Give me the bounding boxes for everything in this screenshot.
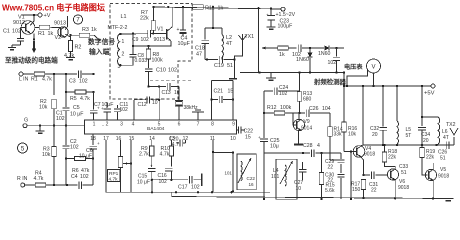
svg-text:9018: 9018 [398, 185, 409, 191]
transistor V9 9014 [293, 119, 304, 130]
resistor R3 10k [53, 126, 55, 147]
svg-text:C21: C21 [214, 89, 224, 95]
wire base V3 [154, 33, 167, 35]
diode 1N60 series [325, 45, 329, 50]
inductor L2 4T [221, 28, 223, 35]
svg-text:0.033: 0.033 [135, 58, 148, 64]
svg-text:C3: C3 [69, 79, 76, 85]
svg-text:102: 102 [279, 91, 288, 97]
svg-text:输入端: 输入端 [89, 47, 110, 56]
capacitor C31 22 [364, 174, 371, 176]
wire node to R3 [71, 34, 80, 36]
svg-text:C28: C28 [303, 143, 313, 149]
inductor L3 variable [241, 161, 242, 181]
svg-text:101: 101 [225, 171, 233, 176]
ground under C23 [267, 26, 276, 28]
svg-text:10k: 10k [348, 132, 357, 138]
capacitor C34 20 [421, 86, 423, 126]
wire detector rail to R16 [343, 73, 345, 87]
svg-text:1k: 1k [48, 31, 54, 37]
svg-text:射频检测器: 射频检测器 [313, 77, 347, 86]
terminal L IN [19, 72, 23, 76]
resistor R15 5.6k [319, 173, 323, 185]
resistor R4 4.7k [25, 184, 35, 186]
wire voltmeter leads [347, 70, 368, 87]
svg-text:RP1: RP1 [109, 171, 119, 177]
svg-text:9013: 9013 [54, 21, 66, 27]
svg-text:TX1: TX1 [245, 34, 255, 40]
wire R19 to V7 base [422, 158, 428, 176]
svg-text:5.6k: 5.6k [325, 188, 335, 194]
svg-text:100μF: 100μF [278, 23, 293, 29]
wire output node row [363, 144, 454, 146]
svg-text:102: 102 [56, 116, 65, 122]
resistor R3 1k [79, 33, 90, 37]
wire R12 node [263, 91, 265, 113]
wire V6 emitter [394, 180, 396, 198]
resistor R16 10k [343, 86, 345, 122]
transistor V1 9012 [21, 21, 35, 35]
wire riser to C21 box [234, 60, 236, 79]
svg-text:+V: +V [44, 13, 51, 19]
terminal +V [38, 13, 42, 17]
wire riser to tank [212, 7, 214, 28]
svg-text:10 μF: 10 μF [70, 112, 83, 118]
capacitor C5 10uF [93, 92, 95, 109]
svg-text:6: 6 [178, 122, 181, 128]
potentiometer RP1 4.7k [120, 140, 122, 157]
transistor V2 9013 [58, 27, 68, 37]
wire C8 branch upper [132, 34, 134, 47]
svg-text:15: 15 [129, 136, 135, 142]
wire V3 emitter down to feedback [167, 37, 171, 41]
resistor R2 10k [53, 74, 55, 95]
wire V6 collector [385, 162, 396, 168]
wire to driver arrow [33, 41, 35, 50]
wire C15 to bus [151, 180, 153, 193]
svg-text:C1: C1 [3, 29, 10, 35]
svg-text:1: 1 [93, 122, 96, 128]
node number 5 [18, 143, 28, 153]
svg-text:+: + [101, 106, 104, 111]
svg-text:150: 150 [352, 187, 361, 193]
svg-text:+1.5~2V: +1.5~2V [276, 12, 296, 18]
capacitor C35 51 antenna coupling [445, 141, 447, 149]
wire V9 collector [298, 113, 300, 119]
wire bus join [171, 192, 173, 196]
wire RP1 wiper [123, 163, 131, 165]
wire antenna stem [235, 41, 243, 60]
svg-text:C10: C10 [156, 68, 166, 74]
wire V2 collector up [65, 16, 67, 30]
transistor V4 9018 [353, 146, 365, 158]
svg-text:C5: C5 [73, 105, 80, 111]
wire bus lower ground [172, 197, 446, 199]
svg-text:100k: 100k [280, 105, 292, 111]
svg-text:MTF-2-2: MTF-2-2 [108, 25, 128, 31]
capacitor 102 shunt [336, 48, 338, 57]
svg-text:1N60: 1N60 [318, 51, 331, 57]
svg-text:R5: R5 [70, 96, 77, 102]
svg-text:102: 102 [168, 68, 177, 74]
capacitor C1 102 ladder [65, 92, 67, 107]
svg-text:9012: 9012 [13, 20, 25, 26]
svg-text:4.7k: 4.7k [34, 176, 44, 182]
capacitor C22 15 [237, 129, 239, 131]
resistor R9 2.7k [151, 140, 153, 146]
voltmeter V [367, 59, 381, 73]
capacitor C17 102 [189, 176, 191, 184]
wire V7 emitter [432, 181, 434, 199]
wire C21 section [212, 80, 234, 82]
capacitor C28 4 [311, 149, 313, 157]
wire V4 base [344, 151, 356, 153]
capacitor C25 10u electrolytic [263, 113, 265, 138]
svg-text:102: 102 [141, 37, 150, 43]
svg-text:7: 7 [76, 17, 80, 24]
resistor R1 1k [35, 27, 40, 29]
svg-text:47: 47 [196, 52, 202, 58]
inductor L6 4T [422, 116, 438, 118]
wire V9 base [292, 113, 294, 121]
svg-text:10μ: 10μ [270, 144, 279, 150]
svg-text:数字信号: 数字信号 [88, 37, 115, 46]
svg-text:+: + [177, 27, 180, 33]
svg-text:22k: 22k [140, 16, 149, 22]
dashed partition [150, 80, 192, 82]
wire ground return battery [258, 8, 260, 72]
resistor R1 4.7k audio [23, 73, 34, 75]
svg-text:R3: R3 [82, 27, 89, 33]
ground on detector rail [270, 73, 272, 78]
svg-text:9013: 9013 [154, 37, 166, 43]
wire V3 collector up [167, 7, 173, 32]
capacitor C11 102 [117, 105, 119, 108]
wire V4 emitter [361, 157, 363, 160]
electrode bar C17 [201, 174, 203, 187]
node number 7 [73, 15, 82, 24]
svg-text:10: 10 [230, 136, 236, 142]
svg-text:2: 2 [122, 52, 125, 58]
wire detector ground rail [240, 72, 344, 74]
resistor R6 47k [66, 158, 75, 160]
capacitor C6 10uF [92, 134, 94, 145]
svg-text:+: + [150, 164, 153, 169]
resistor R19 22k [421, 145, 423, 148]
svg-text:4.7k: 4.7k [109, 177, 119, 183]
wire V1 collector to +V [30, 15, 34, 25]
transistor V7 9018 [425, 169, 436, 180]
wire tank top [205, 27, 222, 29]
svg-text:TX2: TX2 [446, 122, 456, 128]
svg-text:20: 20 [372, 132, 378, 138]
svg-text:22: 22 [328, 164, 334, 170]
wire C25 to C28 row [264, 152, 310, 154]
svg-text:2: 2 [106, 122, 109, 128]
svg-text:BA1404: BA1404 [147, 126, 165, 132]
svg-text:102: 102 [328, 60, 337, 66]
capacitor 102 series [297, 44, 299, 52]
svg-text:4.7k: 4.7k [160, 152, 170, 158]
capacitor C26 104 [305, 109, 307, 117]
box shield L4 [276, 159, 297, 199]
svg-text:16: 16 [249, 182, 255, 187]
svg-text:104: 104 [322, 106, 331, 112]
terminal +5V [431, 84, 435, 88]
wire pin11 box link [213, 152, 233, 154]
svg-text:102: 102 [120, 107, 129, 113]
svg-text:102: 102 [80, 174, 89, 180]
svg-text:1k: 1k [279, 52, 285, 58]
svg-text:C7: C7 [94, 102, 101, 108]
svg-text:C4: C4 [71, 174, 78, 180]
inductor L1 tapped coil [118, 34, 120, 65]
capacitor C19 51 [205, 59, 218, 61]
resistor R14 33k [329, 113, 331, 127]
wire V4 collector [360, 144, 362, 147]
wire V1 base [21, 27, 26, 29]
svg-text:22: 22 [328, 177, 334, 183]
svg-text:1k: 1k [218, 5, 224, 11]
svg-text:51: 51 [227, 63, 233, 69]
diode 1N60 shunt [309, 48, 311, 53]
svg-text:9: 9 [232, 122, 235, 128]
wire V9 emitter ground [298, 131, 300, 144]
svg-text:10k: 10k [39, 105, 48, 111]
svg-text:1: 1 [122, 39, 125, 45]
svg-text:4: 4 [317, 143, 320, 149]
resistor R17 150 [361, 180, 365, 190]
wire pin4 riser [133, 100, 135, 120]
svg-text:V9: V9 [304, 119, 310, 125]
capacitor C32 20 [382, 86, 384, 126]
wire V7 collector [432, 163, 434, 169]
wire R15 chain [321, 153, 323, 173]
svg-text:9018: 9018 [364, 152, 375, 158]
svg-text:4.7k: 4.7k [42, 77, 52, 83]
svg-text:电压表: 电压表 [344, 63, 363, 71]
svg-text:10k: 10k [42, 152, 51, 158]
svg-text:680: 680 [303, 97, 312, 103]
svg-text:G: G [24, 118, 28, 124]
capacitor C23 100uF [270, 9, 272, 15]
capacitor C10 102 [148, 59, 150, 68]
wire pin11 riser [212, 140, 214, 192]
resistor R5 4.7k [65, 74, 67, 92]
svg-text:3: 3 [120, 122, 123, 128]
capacitor C8 0.033 [132, 45, 134, 47]
antenna TX2 [453, 137, 455, 145]
svg-text:+: + [97, 141, 100, 146]
svg-text:R IN: R IN [17, 176, 28, 182]
capacitor C13 10 [149, 86, 167, 88]
svg-text:10: 10 [152, 100, 158, 106]
svg-text:22k: 22k [388, 155, 397, 161]
transistor V3 9013 [166, 29, 168, 40]
wire mid vertical [350, 152, 352, 200]
svg-text:101: 101 [271, 174, 280, 180]
svg-text:8: 8 [211, 122, 214, 128]
svg-text:4T: 4T [443, 135, 449, 141]
svg-text:102: 102 [191, 185, 200, 191]
svg-text:C22: C22 [247, 176, 256, 181]
capacitor C18 47 [204, 28, 206, 40]
wire R14 bottom [330, 159, 341, 161]
svg-text:15: 15 [228, 89, 234, 95]
svg-text:V5: V5 [440, 167, 446, 173]
svg-text:9018: 9018 [438, 174, 449, 180]
wire L1 top to C9 [121, 33, 148, 35]
capacitor C4 10uF electrolytic [182, 7, 184, 30]
svg-text:1N60: 1N60 [296, 57, 309, 63]
svg-text:15: 15 [245, 135, 251, 141]
svg-text:V: V [371, 65, 375, 71]
svg-text:+5V: +5V [424, 91, 435, 97]
svg-text:4: 4 [132, 122, 135, 128]
ground above pin7 [197, 112, 199, 120]
crystal 38kHz [178, 87, 180, 101]
wire +V supply top-left [22, 14, 39, 16]
svg-text:22k: 22k [426, 155, 435, 161]
svg-text:102: 102 [12, 29, 21, 35]
wire R3 to output arrow [90, 34, 94, 36]
resistor R2 4.7k [70, 35, 72, 40]
box shield L3 [237, 154, 256, 190]
wire +5V rail [344, 85, 431, 87]
terminal G ground [23, 124, 27, 128]
svg-text:2.7k: 2.7k [139, 152, 149, 158]
IC U1 BA1404 [85, 120, 237, 134]
inductor L5 5T [396, 86, 398, 121]
wire pin5 riser [158, 87, 160, 121]
capacitor C7 10uF [106, 102, 108, 108]
svg-text:至推动级的电路端: 至推动级的电路端 [5, 56, 58, 65]
svg-text:4T: 4T [226, 41, 233, 47]
wire filter row [152, 179, 188, 181]
svg-text:3: 3 [118, 64, 121, 70]
svg-text:10 μF: 10 μF [137, 180, 150, 186]
wire pin15 riser [130, 140, 132, 192]
wire bus upper [106, 191, 270, 193]
plate bar C21 box [229, 78, 237, 80]
svg-text:10μF: 10μF [178, 41, 191, 47]
svg-text:7: 7 [197, 122, 200, 128]
svg-text:5T: 5T [406, 133, 412, 139]
wire detector output [343, 47, 345, 49]
svg-text:V1: V1 [157, 27, 163, 33]
resistor R13 680 [299, 73, 301, 92]
antenna TX1 [239, 35, 247, 41]
svg-text:102: 102 [70, 145, 79, 151]
capacitor C24 102 [264, 90, 273, 92]
dashed shield box oscillator [110, 4, 192, 100]
svg-text:R1: R1 [31, 77, 38, 83]
wire V1 emitter down [33, 33, 35, 40]
inductor L4 variable [285, 165, 286, 186]
svg-text:L1: L1 [121, 14, 127, 20]
svg-text:100k: 100k [152, 58, 164, 64]
wire left edge riser [102, 125, 104, 127]
capacitor C3 102 [78, 70, 80, 78]
capacitor C27 10 [299, 168, 307, 170]
ground under R2 [70, 52, 72, 58]
svg-text:L IN: L IN [19, 77, 29, 83]
terminal +1.5~2V battery [281, 7, 285, 11]
svg-text:R12: R12 [267, 105, 277, 111]
resistor R11 1k [193, 5, 204, 9]
terminal R IN [21, 183, 25, 187]
svg-text:33k: 33k [334, 132, 343, 138]
svg-text:102: 102 [79, 79, 88, 85]
capacitor C2 102 [65, 126, 67, 145]
ground under C1 [12, 44, 21, 46]
svg-text:51: 51 [401, 170, 407, 176]
resistor R8 100k [147, 45, 149, 47]
svg-text:1k: 1k [91, 27, 97, 33]
wire V2 emitter to node [65, 34, 70, 37]
ground on G rail [39, 126, 41, 131]
svg-text:C26: C26 [309, 106, 319, 112]
resistor R18 22k [384, 145, 386, 152]
capacitor C4 102 audio [78, 181, 80, 189]
wire supply rail top [154, 7, 282, 9]
svg-text:4.7k: 4.7k [80, 96, 90, 102]
wire G rail [27, 125, 85, 127]
wire pin17 riser [105, 140, 107, 192]
svg-text:C17: C17 [178, 185, 188, 191]
wire C25 to bus [263, 153, 265, 199]
wire L1 bottom [121, 64, 134, 66]
ground bus end [443, 198, 454, 200]
svg-text:10: 10 [296, 186, 302, 192]
wire detector pickup arrow [262, 46, 266, 49]
svg-text:20: 20 [423, 138, 429, 144]
transistor V6 9018 [387, 169, 398, 180]
svg-text:R1: R1 [38, 31, 45, 37]
resistor 1k detector [278, 46, 289, 50]
svg-text:C13: C13 [162, 90, 171, 96]
svg-text:9014: 9014 [301, 126, 312, 132]
svg-text:5: 5 [21, 145, 25, 152]
svg-text:51: 51 [440, 156, 446, 162]
svg-text:C12: C12 [138, 102, 147, 108]
svg-text:R2: R2 [75, 45, 82, 51]
svg-text:Www.7805.cn 电子电路图坛: Www.7805.cn 电子电路图坛 [2, 2, 105, 13]
svg-text:C19: C19 [214, 63, 224, 69]
svg-text:22: 22 [371, 188, 377, 194]
resistor R10 4.7k [170, 140, 172, 146]
svg-text:5: 5 [158, 122, 161, 128]
svg-text:V2: V2 [55, 35, 62, 41]
